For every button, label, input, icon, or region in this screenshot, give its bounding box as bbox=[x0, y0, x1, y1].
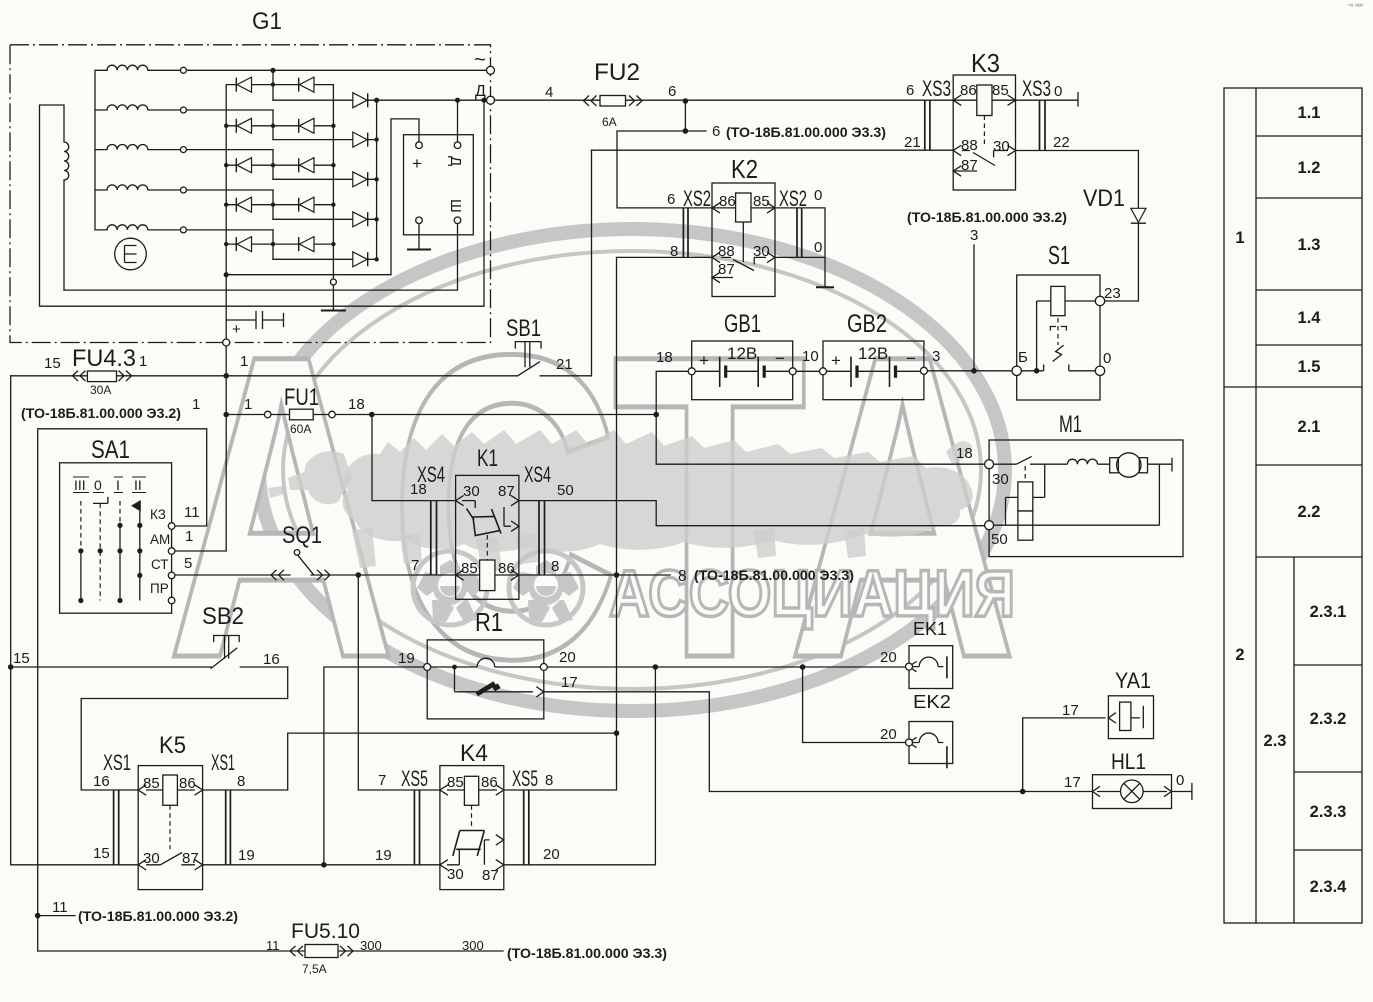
svg-text:19: 19 bbox=[398, 650, 415, 667]
svg-text:0: 0 bbox=[814, 239, 822, 256]
svg-text:85: 85 bbox=[447, 774, 464, 791]
svg-text:3: 3 bbox=[970, 227, 978, 244]
svg-text:M1: M1 bbox=[1059, 411, 1082, 438]
svg-text:+: + bbox=[699, 351, 709, 370]
svg-text:XS3: XS3 bbox=[1022, 76, 1051, 101]
svg-text:YA1: YA1 bbox=[1115, 668, 1151, 693]
svg-text:1.2: 1.2 bbox=[1298, 159, 1321, 177]
svg-text:XS1: XS1 bbox=[211, 750, 235, 775]
svg-text:G1: G1 bbox=[252, 8, 282, 35]
svg-text:12В: 12В bbox=[727, 344, 757, 363]
svg-text:4: 4 bbox=[545, 84, 553, 101]
svg-text:−: − bbox=[906, 349, 916, 368]
svg-text:2.3.4: 2.3.4 bbox=[1310, 878, 1348, 896]
svg-text:88: 88 bbox=[718, 243, 735, 260]
svg-text:50: 50 bbox=[557, 482, 574, 499]
svg-text:300: 300 bbox=[360, 938, 382, 953]
svg-text:XS2: XS2 bbox=[779, 186, 807, 211]
svg-text:0: 0 bbox=[814, 187, 822, 204]
svg-text:85: 85 bbox=[753, 193, 770, 210]
svg-text:КЗ: КЗ bbox=[150, 507, 166, 522]
svg-text:1.1: 1.1 bbox=[1298, 104, 1321, 122]
svg-text:87: 87 bbox=[482, 867, 499, 884]
svg-text:GB1: GB1 bbox=[724, 310, 761, 338]
svg-text:17: 17 bbox=[561, 674, 578, 691]
svg-text:86: 86 bbox=[719, 193, 736, 210]
svg-text:30: 30 bbox=[463, 483, 480, 500]
svg-text:21: 21 bbox=[904, 134, 921, 151]
svg-text:60A: 60A bbox=[290, 422, 311, 436]
svg-text:86: 86 bbox=[179, 775, 196, 792]
svg-text:XS1: XS1 bbox=[103, 750, 131, 775]
svg-text:16: 16 bbox=[263, 651, 280, 668]
svg-text:1: 1 bbox=[192, 396, 200, 413]
svg-text:50: 50 bbox=[991, 531, 1008, 548]
svg-text:СТ: СТ bbox=[151, 557, 169, 572]
svg-text:°º ººº: °º ººº bbox=[1348, 3, 1363, 11]
svg-text:SA1: SA1 bbox=[91, 436, 130, 464]
svg-text:+: + bbox=[412, 154, 422, 173]
svg-text:6: 6 bbox=[667, 191, 675, 208]
svg-text:1: 1 bbox=[240, 353, 248, 370]
svg-text:23: 23 bbox=[1104, 285, 1121, 302]
svg-text:86: 86 bbox=[498, 560, 515, 577]
svg-text:+: + bbox=[831, 351, 841, 370]
svg-text:K4: K4 bbox=[460, 740, 488, 767]
svg-text:86: 86 bbox=[481, 774, 498, 791]
svg-text:~: ~ bbox=[474, 49, 486, 71]
svg-text:11: 11 bbox=[52, 899, 68, 916]
svg-text:5: 5 bbox=[184, 555, 192, 572]
svg-text:87: 87 bbox=[961, 157, 978, 174]
svg-text:12В: 12В bbox=[858, 344, 888, 363]
svg-text:10: 10 bbox=[802, 348, 819, 365]
svg-text:1: 1 bbox=[244, 396, 252, 413]
svg-text:30: 30 bbox=[753, 243, 770, 260]
svg-text:15: 15 bbox=[93, 845, 110, 862]
svg-text:17: 17 bbox=[1062, 702, 1079, 719]
svg-text:1: 1 bbox=[185, 528, 193, 545]
svg-text:87: 87 bbox=[718, 261, 735, 278]
svg-text:85: 85 bbox=[461, 560, 478, 577]
svg-text:2.3: 2.3 bbox=[1264, 732, 1287, 750]
svg-text:21: 21 bbox=[556, 356, 573, 373]
svg-text:0: 0 bbox=[1103, 350, 1111, 367]
svg-text:18: 18 bbox=[656, 349, 673, 366]
svg-text:19: 19 bbox=[375, 847, 392, 864]
svg-text:2.3.3: 2.3.3 bbox=[1310, 803, 1347, 821]
svg-text:8: 8 bbox=[237, 773, 245, 790]
svg-text:2.3.1: 2.3.1 bbox=[1310, 603, 1347, 621]
svg-text:3: 3 bbox=[932, 348, 940, 365]
svg-text:Д: Д bbox=[447, 156, 464, 166]
svg-text:20: 20 bbox=[559, 649, 576, 666]
svg-text:R1: R1 bbox=[475, 607, 503, 637]
svg-text:0: 0 bbox=[94, 477, 102, 493]
svg-text:30А: 30А bbox=[90, 383, 111, 397]
svg-text:ПР: ПР bbox=[150, 581, 169, 596]
svg-text:1.5: 1.5 bbox=[1298, 358, 1321, 376]
svg-text:19: 19 bbox=[238, 847, 255, 864]
svg-text:18: 18 bbox=[410, 481, 427, 498]
svg-text:7,5А: 7,5А bbox=[302, 962, 327, 976]
svg-text:FU4.3: FU4.3 bbox=[72, 345, 136, 372]
svg-text:XS5: XS5 bbox=[401, 766, 428, 791]
svg-text:85: 85 bbox=[992, 82, 1009, 99]
svg-text:86: 86 bbox=[960, 82, 977, 99]
svg-text:GB2: GB2 bbox=[847, 310, 887, 338]
svg-text:300: 300 bbox=[462, 938, 484, 953]
svg-text:87: 87 bbox=[182, 850, 199, 867]
svg-text:6A: 6A bbox=[602, 115, 617, 129]
svg-text:(ТО-18Б.81.00.000 Э3.2): (ТО-18Б.81.00.000 Э3.2) bbox=[21, 405, 181, 421]
svg-text:K2: K2 bbox=[731, 154, 758, 184]
svg-text:85: 85 bbox=[143, 775, 160, 792]
svg-text:30: 30 bbox=[447, 866, 464, 883]
svg-text:2.3.2: 2.3.2 bbox=[1310, 710, 1347, 728]
svg-text:XS4: XS4 bbox=[524, 462, 551, 487]
svg-text:1.3: 1.3 bbox=[1298, 236, 1321, 254]
svg-text:XS2: XS2 bbox=[683, 186, 711, 211]
svg-text:30: 30 bbox=[992, 471, 1009, 488]
svg-text:(ТО-18Б.81.00.000 Э3.3): (ТО-18Б.81.00.000 Э3.3) bbox=[726, 124, 886, 140]
svg-text:FU1: FU1 bbox=[284, 384, 319, 411]
svg-text:(ТО-18Б.81.00.000 Э3.2): (ТО-18Б.81.00.000 Э3.2) bbox=[907, 209, 1067, 225]
svg-text:(ТО-18Б.81.00.000 Э3.2): (ТО-18Б.81.00.000 Э3.2) bbox=[78, 908, 238, 924]
svg-text:20: 20 bbox=[880, 726, 897, 743]
svg-text:0: 0 bbox=[1176, 772, 1184, 789]
svg-text:−: − bbox=[775, 349, 785, 368]
svg-text:22: 22 bbox=[1053, 134, 1070, 151]
svg-text:SB2: SB2 bbox=[202, 603, 244, 630]
svg-text:0: 0 bbox=[1054, 83, 1062, 100]
svg-text:8: 8 bbox=[545, 772, 553, 789]
svg-text:6: 6 bbox=[712, 123, 720, 140]
svg-text:30: 30 bbox=[993, 138, 1010, 155]
svg-text:2: 2 bbox=[1235, 646, 1244, 664]
svg-text:87: 87 bbox=[498, 483, 515, 500]
svg-text:K5: K5 bbox=[159, 732, 186, 759]
svg-text:7: 7 bbox=[411, 557, 419, 574]
svg-text:20: 20 bbox=[543, 846, 560, 863]
svg-text:K1: K1 bbox=[477, 445, 498, 472]
svg-text:88: 88 bbox=[961, 137, 978, 154]
svg-text:FU5.10: FU5.10 bbox=[291, 920, 360, 943]
svg-text:Ш: Ш bbox=[447, 199, 464, 213]
svg-text:Б: Б bbox=[1018, 349, 1028, 366]
svg-text:+: + bbox=[232, 321, 241, 338]
svg-text:(ТО-18Б.81.00.000 Э3.3): (ТО-18Б.81.00.000 Э3.3) bbox=[507, 945, 667, 961]
svg-text:III: III bbox=[74, 477, 86, 493]
svg-text:2.2: 2.2 bbox=[1298, 503, 1321, 521]
svg-text:16: 16 bbox=[93, 773, 110, 790]
svg-text:Д: Д bbox=[475, 83, 486, 100]
svg-text:АМ: АМ bbox=[150, 532, 170, 547]
svg-text:30: 30 bbox=[143, 850, 160, 867]
svg-text:SB1: SB1 bbox=[506, 315, 541, 342]
svg-text:7: 7 bbox=[378, 772, 386, 789]
svg-text:15: 15 bbox=[44, 355, 61, 372]
svg-text:HL1: HL1 bbox=[1111, 749, 1146, 774]
svg-text:6: 6 bbox=[668, 83, 676, 100]
svg-text:EK2: EK2 bbox=[913, 692, 951, 712]
svg-text:1: 1 bbox=[1235, 229, 1244, 247]
svg-text:S1: S1 bbox=[1048, 240, 1070, 270]
svg-text:FU2: FU2 bbox=[594, 59, 640, 86]
svg-text:EK1: EK1 bbox=[913, 619, 947, 639]
svg-text:15: 15 bbox=[13, 650, 30, 667]
svg-text:II: II bbox=[134, 477, 142, 493]
svg-text:8: 8 bbox=[551, 558, 559, 575]
svg-text:20: 20 bbox=[880, 649, 897, 666]
svg-text:I: I bbox=[116, 477, 120, 493]
svg-text:SQ1: SQ1 bbox=[282, 522, 322, 549]
svg-text:6: 6 bbox=[906, 82, 914, 99]
svg-text:XS5: XS5 bbox=[512, 766, 538, 791]
svg-text:8: 8 bbox=[670, 243, 678, 260]
svg-text:VD1: VD1 bbox=[1083, 185, 1125, 212]
svg-text:XS3: XS3 bbox=[922, 76, 951, 101]
svg-text:8: 8 bbox=[678, 568, 687, 585]
svg-text:(ТО-18Б.81.00.000 Э3.3): (ТО-18Б.81.00.000 Э3.3) bbox=[694, 567, 854, 583]
svg-text:1: 1 bbox=[139, 353, 147, 370]
svg-text:11: 11 bbox=[184, 504, 200, 521]
svg-text:17: 17 bbox=[1064, 774, 1081, 791]
svg-text:1.4: 1.4 bbox=[1298, 309, 1322, 327]
svg-text:18: 18 bbox=[348, 396, 365, 413]
svg-text:11: 11 bbox=[266, 938, 280, 953]
svg-text:18: 18 bbox=[956, 445, 973, 462]
svg-text:K3: K3 bbox=[971, 48, 1000, 78]
svg-text:2.1: 2.1 bbox=[1298, 418, 1321, 436]
